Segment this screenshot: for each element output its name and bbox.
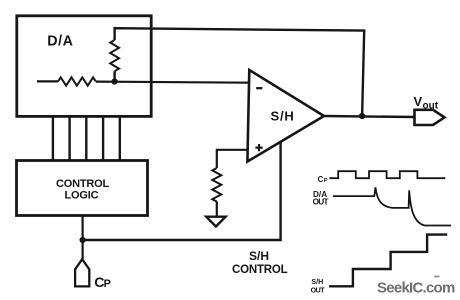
svg-text:P: P <box>104 278 111 290</box>
svg-text:LOGIC: LOGIC <box>65 190 99 202</box>
svg-text:SeekIC.com: SeekIC.com <box>377 280 455 297</box>
svg-text:C: C <box>318 175 324 184</box>
svg-text:OUT: OUT <box>313 198 329 207</box>
svg-text:S/H: S/H <box>271 109 295 124</box>
svg-text:S/H: S/H <box>311 278 323 286</box>
svg-text:OUT: OUT <box>311 287 326 295</box>
svg-text:P: P <box>324 178 328 184</box>
svg-text:CONTROL: CONTROL <box>232 264 288 276</box>
svg-text:D/A: D/A <box>47 33 73 49</box>
svg-text:V: V <box>414 94 423 109</box>
svg-text:out: out <box>423 101 439 112</box>
svg-text:S/H: S/H <box>249 249 269 263</box>
svg-text:CONTROL: CONTROL <box>56 178 109 190</box>
